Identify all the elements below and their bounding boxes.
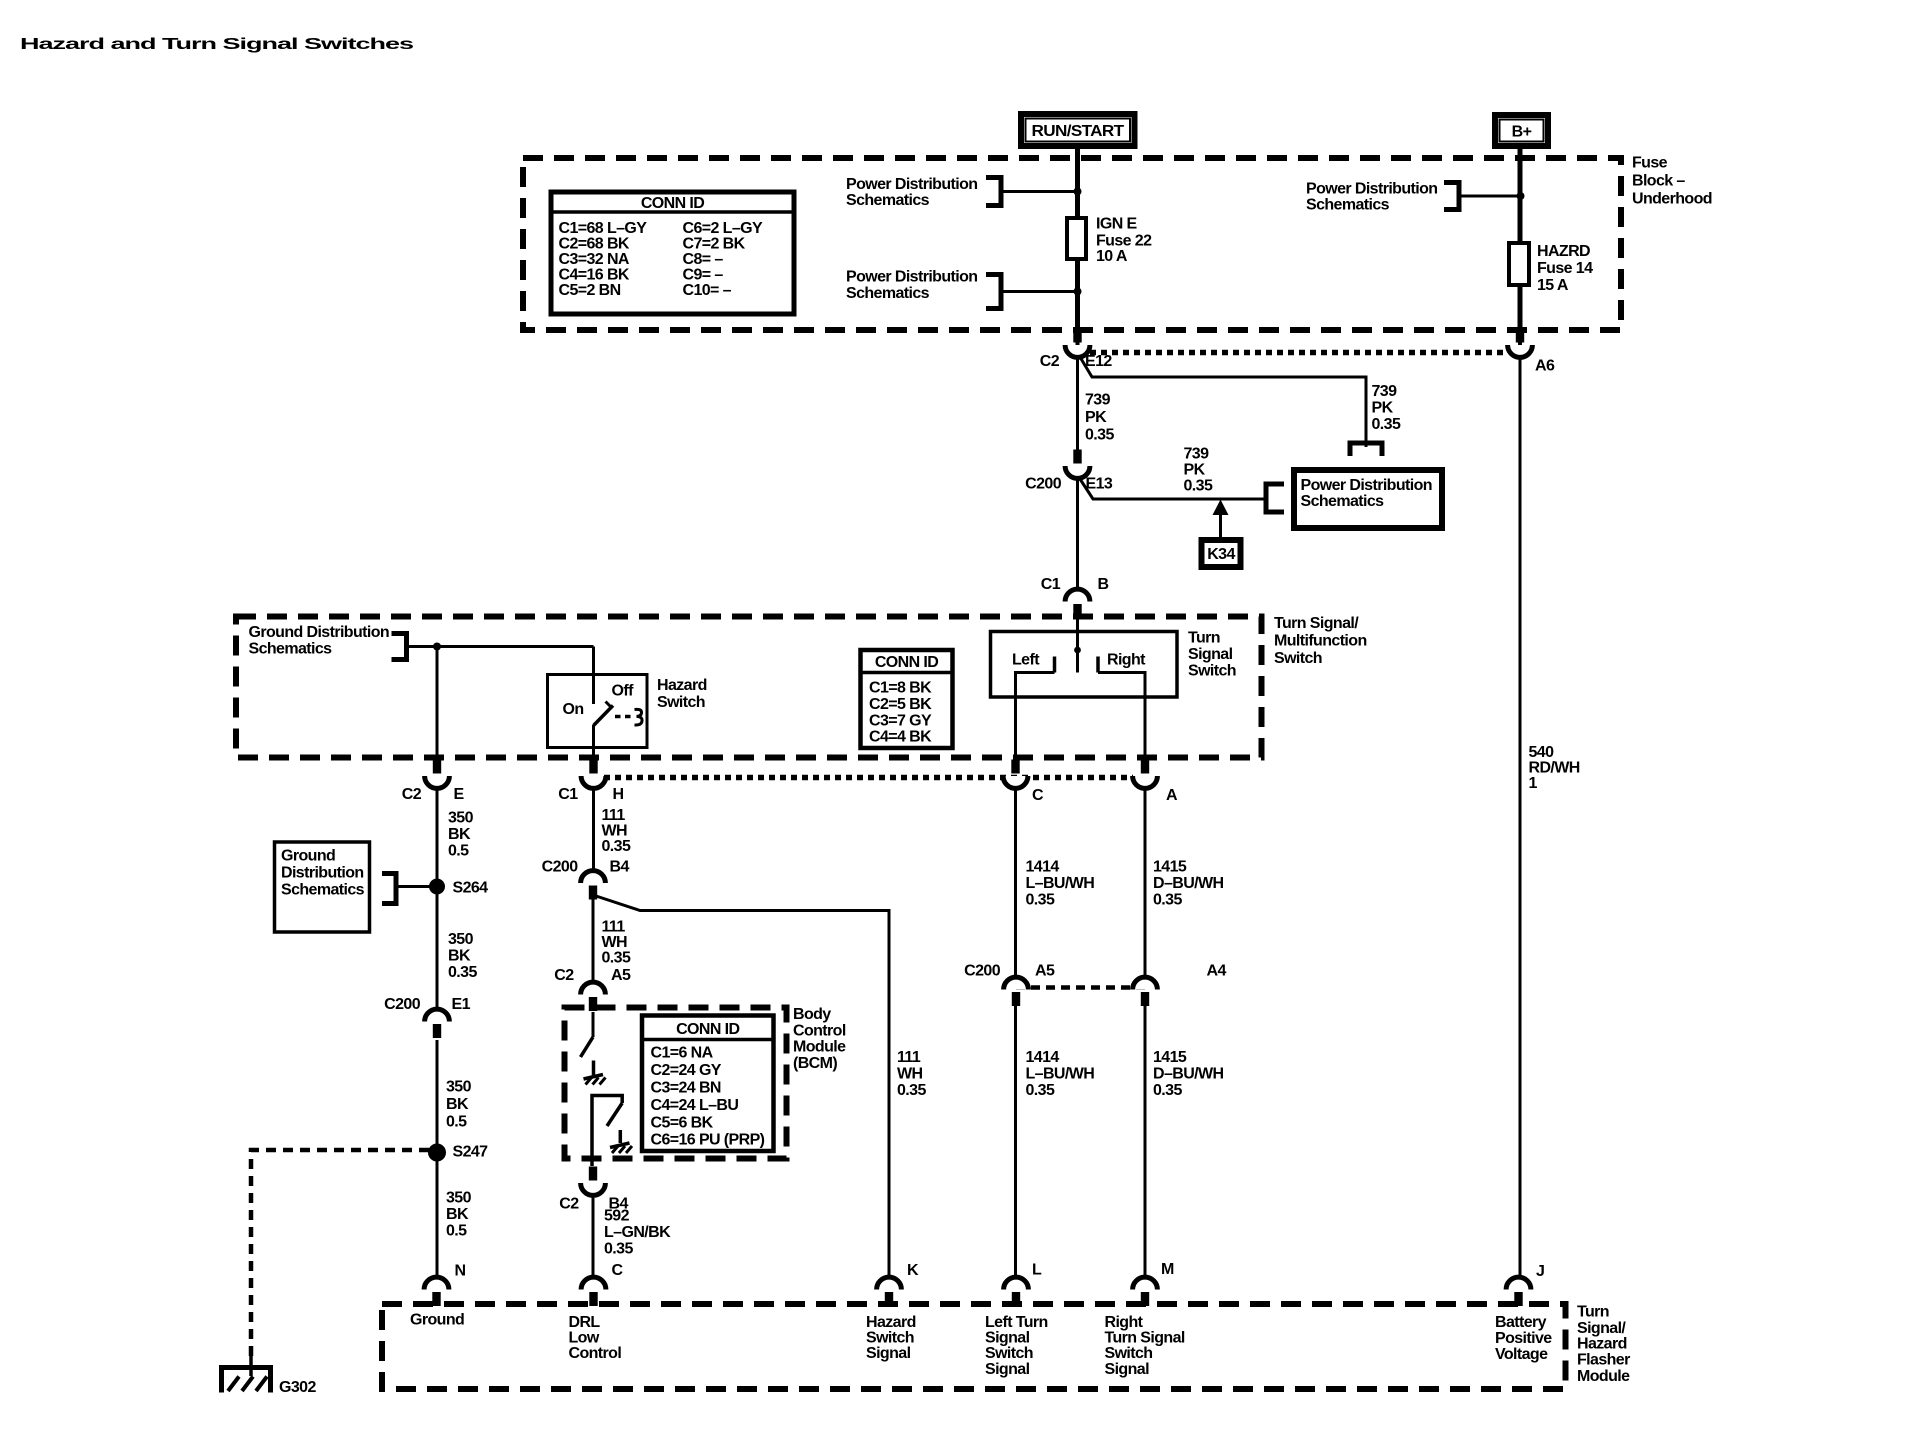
svg-text:Switch: Switch xyxy=(1105,1345,1153,1362)
svg-text:C1: C1 xyxy=(1041,576,1061,593)
svg-text:0.5: 0.5 xyxy=(446,1223,467,1240)
svg-text:A6: A6 xyxy=(1535,358,1555,375)
svg-text:Signal/: Signal/ xyxy=(1577,1320,1626,1337)
svg-text:PK: PK xyxy=(1085,409,1107,426)
svg-text:G302: G302 xyxy=(279,1379,316,1396)
svg-text:(BCM): (BCM) xyxy=(793,1055,837,1072)
svg-text:C9= –: C9= – xyxy=(683,267,724,284)
svg-text:0.35: 0.35 xyxy=(1026,892,1055,909)
svg-text:BK: BK xyxy=(446,1206,469,1223)
svg-text:15 A: 15 A xyxy=(1537,277,1569,294)
svg-text:D–BU/WH: D–BU/WH xyxy=(1153,1066,1224,1083)
svg-text:1415: 1415 xyxy=(1153,859,1187,876)
svg-text:111: 111 xyxy=(897,1049,921,1066)
svg-text:C200: C200 xyxy=(384,996,421,1013)
svg-text:BK: BK xyxy=(446,1096,469,1113)
svg-text:Underhood: Underhood xyxy=(1632,191,1712,208)
svg-text:10 A: 10 A xyxy=(1096,248,1128,265)
svg-text:Signal: Signal xyxy=(985,1361,1030,1378)
svg-text:350: 350 xyxy=(446,1079,472,1096)
svg-text:E12: E12 xyxy=(1085,353,1112,370)
svg-text:Ground: Ground xyxy=(281,848,335,865)
svg-text:Hazard: Hazard xyxy=(866,1314,916,1331)
svg-text:L–GN/BK: L–GN/BK xyxy=(604,1224,671,1241)
svg-text:E13: E13 xyxy=(1086,476,1113,493)
svg-text:Positive: Positive xyxy=(1495,1330,1552,1347)
svg-text:C6=16 PU (PRP): C6=16 PU (PRP) xyxy=(651,1132,765,1149)
svg-text:C2=24 GY: C2=24 GY xyxy=(651,1062,722,1079)
svg-text:1414: 1414 xyxy=(1026,859,1060,876)
svg-text:Schematics: Schematics xyxy=(1301,493,1385,510)
svg-text:A5: A5 xyxy=(1035,963,1055,980)
svg-text:C: C xyxy=(612,1262,624,1279)
svg-text:CONN ID: CONN ID xyxy=(641,195,704,212)
svg-text:Schematics: Schematics xyxy=(846,192,930,209)
svg-text:B+: B+ xyxy=(1512,124,1532,141)
svg-text:Switch: Switch xyxy=(985,1345,1033,1362)
svg-text:Control: Control xyxy=(569,1345,622,1362)
svg-text:K: K xyxy=(907,1262,919,1279)
svg-text:1415: 1415 xyxy=(1153,1049,1187,1066)
svg-text:Power Distribution: Power Distribution xyxy=(846,176,977,193)
svg-text:Power Distribution: Power Distribution xyxy=(1301,477,1432,494)
svg-text:0.5: 0.5 xyxy=(446,1114,467,1131)
svg-text:0.35: 0.35 xyxy=(1184,478,1213,495)
svg-text:C2=5 BK: C2=5 BK xyxy=(869,696,932,713)
svg-text:Right: Right xyxy=(1105,1314,1144,1331)
svg-text:C10= –: C10= – xyxy=(683,282,732,299)
svg-text:1: 1 xyxy=(1529,775,1538,792)
svg-text:739: 739 xyxy=(1372,383,1398,400)
svg-text:K34: K34 xyxy=(1207,546,1235,563)
svg-text:0.5: 0.5 xyxy=(448,843,469,860)
svg-text:Off: Off xyxy=(612,683,635,700)
svg-text:H: H xyxy=(613,786,624,803)
svg-text:L–BU/WH: L–BU/WH xyxy=(1026,1066,1095,1083)
svg-text:739: 739 xyxy=(1085,392,1111,409)
svg-text:0.35: 0.35 xyxy=(1085,427,1114,444)
svg-text:BK: BK xyxy=(448,826,471,843)
svg-text:1414: 1414 xyxy=(1026,1049,1060,1066)
svg-text:0.35: 0.35 xyxy=(1153,1082,1182,1099)
svg-text:Schematics: Schematics xyxy=(1306,197,1390,214)
svg-text:C200: C200 xyxy=(1025,476,1062,493)
svg-text:A5: A5 xyxy=(611,967,631,984)
svg-text:RUN/START: RUN/START xyxy=(1032,123,1125,140)
svg-text:Voltage: Voltage xyxy=(1495,1346,1548,1363)
svg-text:S264: S264 xyxy=(453,880,489,897)
svg-text:C4=4 BK: C4=4 BK xyxy=(869,729,932,746)
svg-text:BK: BK xyxy=(448,948,471,965)
svg-text:C3=7 GY: C3=7 GY xyxy=(869,713,932,730)
svg-text:C3=32 NA: C3=32 NA xyxy=(559,251,630,268)
svg-text:Switch: Switch xyxy=(657,694,705,711)
svg-text:C2: C2 xyxy=(554,967,574,984)
svg-text:C2: C2 xyxy=(559,1196,579,1213)
svg-text:C: C xyxy=(1032,787,1044,804)
svg-text:Turn: Turn xyxy=(1188,630,1220,647)
svg-text:L: L xyxy=(1032,1262,1042,1279)
svg-text:HAZRD: HAZRD xyxy=(1537,243,1590,260)
svg-text:E: E xyxy=(454,786,465,803)
svg-text:0.35: 0.35 xyxy=(1372,416,1401,433)
svg-text:CONN ID: CONN ID xyxy=(875,654,938,671)
svg-text:PK: PK xyxy=(1372,400,1394,417)
svg-text:C1=68 L–GY: C1=68 L–GY xyxy=(559,220,648,237)
svg-text:C4=16 BK: C4=16 BK xyxy=(559,267,630,284)
svg-text:J: J xyxy=(1536,1263,1544,1280)
svg-text:Signal: Signal xyxy=(1105,1361,1150,1378)
svg-text:0.35: 0.35 xyxy=(602,838,631,855)
svg-text:Switch: Switch xyxy=(866,1330,914,1347)
svg-text:RD/WH: RD/WH xyxy=(1529,760,1580,777)
svg-text:On: On xyxy=(563,701,584,718)
svg-text:B4: B4 xyxy=(610,859,630,876)
svg-text:PK: PK xyxy=(1184,462,1206,479)
svg-text:Hazard: Hazard xyxy=(1577,1336,1627,1353)
svg-text:Schematics: Schematics xyxy=(846,285,930,302)
svg-text:L–BU/WH: L–BU/WH xyxy=(1026,875,1095,892)
svg-text:0.35: 0.35 xyxy=(448,964,477,981)
svg-text:WH: WH xyxy=(897,1066,923,1083)
svg-text:C2=68 BK: C2=68 BK xyxy=(559,236,630,253)
svg-text:Switch: Switch xyxy=(1188,663,1236,680)
svg-text:Multifunction: Multifunction xyxy=(1274,633,1367,650)
svg-text:Left: Left xyxy=(1012,652,1040,669)
svg-text:C200: C200 xyxy=(542,859,579,876)
svg-text:D–BU/WH: D–BU/WH xyxy=(1153,875,1224,892)
svg-text:Turn Signal/: Turn Signal/ xyxy=(1274,615,1359,632)
svg-text:Battery: Battery xyxy=(1495,1314,1547,1331)
svg-text:Hazard: Hazard xyxy=(657,677,707,694)
svg-text:Schematics: Schematics xyxy=(281,882,365,899)
svg-text:0.35: 0.35 xyxy=(1026,1082,1055,1099)
svg-text:Signal: Signal xyxy=(1188,646,1233,663)
svg-text:C8= –: C8= – xyxy=(683,251,724,268)
svg-text:Fuse: Fuse xyxy=(1632,155,1668,172)
svg-text:CONN ID: CONN ID xyxy=(676,1021,739,1038)
svg-text:WH: WH xyxy=(602,934,628,951)
svg-text:C1=8 BK: C1=8 BK xyxy=(869,680,932,697)
svg-text:Fuse 22: Fuse 22 xyxy=(1096,233,1152,250)
svg-text:C3=24 BN: C3=24 BN xyxy=(651,1080,721,1097)
svg-text:Power Distribution: Power Distribution xyxy=(1306,181,1437,198)
svg-text:C200: C200 xyxy=(964,963,1001,980)
svg-text:Right: Right xyxy=(1107,652,1146,669)
svg-text:0.35: 0.35 xyxy=(602,950,631,967)
svg-text:Left Turn: Left Turn xyxy=(985,1314,1048,1331)
svg-text:B: B xyxy=(1098,576,1109,593)
svg-text:Distribution: Distribution xyxy=(281,865,364,882)
svg-text:IGN E: IGN E xyxy=(1096,216,1137,233)
svg-text:Module: Module xyxy=(793,1039,846,1056)
svg-text:C2: C2 xyxy=(402,786,422,803)
svg-text:540: 540 xyxy=(1529,744,1555,761)
svg-text:350: 350 xyxy=(448,931,474,948)
svg-text:C7=2 BK: C7=2 BK xyxy=(683,236,746,253)
svg-text:739: 739 xyxy=(1184,446,1210,463)
svg-text:Switch: Switch xyxy=(1274,650,1322,667)
svg-text:Flasher: Flasher xyxy=(1577,1352,1630,1369)
svg-text:E1: E1 xyxy=(452,996,471,1013)
svg-text:C2: C2 xyxy=(1040,353,1060,370)
svg-text:C4=24 L–BU: C4=24 L–BU xyxy=(651,1097,739,1114)
svg-text:Control: Control xyxy=(793,1023,846,1040)
svg-text:DRL: DRL xyxy=(569,1314,601,1331)
svg-text:0.35: 0.35 xyxy=(604,1241,633,1258)
svg-text:Low: Low xyxy=(569,1330,600,1347)
svg-text:Fuse 14: Fuse 14 xyxy=(1537,260,1593,277)
svg-text:0.35: 0.35 xyxy=(897,1082,926,1099)
svg-text:C1=6 NA: C1=6 NA xyxy=(651,1045,714,1062)
svg-text:350: 350 xyxy=(448,810,474,827)
svg-text:Ground: Ground xyxy=(410,1312,464,1329)
svg-text:Hazard and Turn Signal Switche: Hazard and Turn Signal Switches xyxy=(20,36,414,53)
svg-text:C5=2 BN: C5=2 BN xyxy=(559,282,621,299)
svg-text:C5=6 BK: C5=6 BK xyxy=(651,1115,714,1132)
svg-text:Schematics: Schematics xyxy=(249,641,333,658)
svg-text:Power Distribution: Power Distribution xyxy=(846,269,977,286)
svg-text:Module: Module xyxy=(1577,1368,1630,1385)
svg-text:111: 111 xyxy=(602,807,626,824)
svg-text:111: 111 xyxy=(602,919,626,936)
svg-text:A: A xyxy=(1166,787,1178,804)
svg-text:350: 350 xyxy=(446,1190,472,1207)
svg-text:Signal: Signal xyxy=(866,1345,911,1362)
svg-text:Ground Distribution: Ground Distribution xyxy=(249,624,390,641)
svg-text:S247: S247 xyxy=(453,1144,489,1161)
svg-text:C6=2 L–GY: C6=2 L–GY xyxy=(683,220,763,237)
svg-text:592: 592 xyxy=(604,1208,630,1225)
svg-text:Block –: Block – xyxy=(1632,173,1685,190)
svg-text:0.35: 0.35 xyxy=(1153,892,1182,909)
svg-text:C1: C1 xyxy=(558,786,578,803)
svg-text:M: M xyxy=(1161,1261,1174,1278)
svg-text:Turn Signal: Turn Signal xyxy=(1105,1330,1185,1347)
svg-text:Body: Body xyxy=(793,1006,831,1023)
svg-text:WH: WH xyxy=(602,823,628,840)
svg-text:Signal: Signal xyxy=(985,1330,1030,1347)
svg-text:A4: A4 xyxy=(1207,963,1227,980)
svg-text:N: N xyxy=(455,1263,466,1280)
svg-text:Turn: Turn xyxy=(1577,1304,1609,1321)
